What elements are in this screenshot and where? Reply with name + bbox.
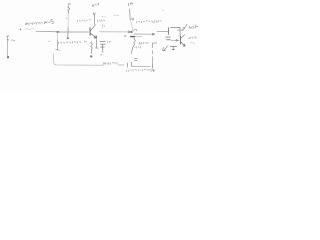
resistor R1 vertical <box>68 4 70 14</box>
pen dot <box>20 29 21 30</box>
top rail right <box>171 27 181 36</box>
dash after text <box>118 64 124 66</box>
bottom ground rail left <box>53 54 103 65</box>
label "R1" value <box>45 20 54 24</box>
text row right of R2 lower lead <box>133 47 141 49</box>
label C+ top middle <box>128 3 132 6</box>
wire input to base <box>36 30 89 33</box>
emitter resistor squiggle <box>91 42 93 54</box>
Q2 collector diagonal <box>181 35 185 39</box>
small text right of bypass cap <box>108 41 111 43</box>
output tap diagonal <box>182 25 186 31</box>
small tick below Q1 <box>85 41 87 43</box>
emitter scribble arrow <box>163 46 168 51</box>
faint tick above long wire <box>102 25 104 28</box>
small cross node under middle dot <box>124 35 127 36</box>
Q1 collector <box>91 15 95 31</box>
bottom rail right segment <box>133 60 153 68</box>
text right of Q2 <box>189 36 197 38</box>
Q1 emitter with arrowhead <box>91 33 97 38</box>
ground symbol right <box>170 46 176 50</box>
faint dot above rail <box>101 54 102 55</box>
tiny mark far top left of right stage <box>153 21 158 24</box>
text row upper-middle-right <box>137 20 162 23</box>
label out <box>189 25 198 28</box>
dashed vertical wire right <box>153 42 157 44</box>
tiny marks under Q2 side text <box>191 42 195 45</box>
two vertical ticks <box>128 62 133 67</box>
faint tick pair upper middle <box>102 16 106 17</box>
faint dot upper right <box>163 10 164 11</box>
faint tick left of middle column <box>115 15 119 16</box>
label Rc top <box>93 3 99 6</box>
text row mid-left "ND" <box>59 42 82 44</box>
text beta c right of R2 <box>139 42 148 44</box>
transistor Q1 base bar <box>89 28 91 35</box>
Q2 base wire from cap <box>171 40 179 42</box>
vertical wire middle node up <box>130 9 134 20</box>
divider lower leg with arrow foot <box>57 34 59 41</box>
text row under Rc <box>78 20 91 22</box>
faint caption row under bottom rail <box>127 69 153 72</box>
transistor Q2 base bar <box>179 36 181 44</box>
collector current arrowhead <box>93 13 95 15</box>
input terminal Vin <box>6 36 9 56</box>
bypass capacitor on Q1 emitter <box>95 40 98 49</box>
cross mark on collector <box>178 29 183 31</box>
long wire collector node to middle node with arrow <box>100 31 129 33</box>
label squiggle under row 1 <box>25 29 34 30</box>
faint tick left of text row <box>48 40 50 43</box>
small mark bottom right of dashes <box>153 69 155 72</box>
ground dashes middle <box>134 59 137 61</box>
capacitor second plate dashes <box>166 37 171 40</box>
resistor R2 below middle node <box>131 38 135 54</box>
Q2 emitter diagonal with arrow <box>181 42 185 46</box>
label near input <box>12 40 15 41</box>
wire middle node to coupling cap with arrow <box>134 33 153 35</box>
label "Transistor Amp" handwriting row 1 <box>26 22 43 25</box>
text N1151 bottom <box>104 62 118 64</box>
node junction dot <box>56 31 59 33</box>
coupling capacitor plate <box>167 28 169 35</box>
small squiggle above node <box>134 29 137 31</box>
wire into coupling capacitor C2 <box>157 31 168 33</box>
